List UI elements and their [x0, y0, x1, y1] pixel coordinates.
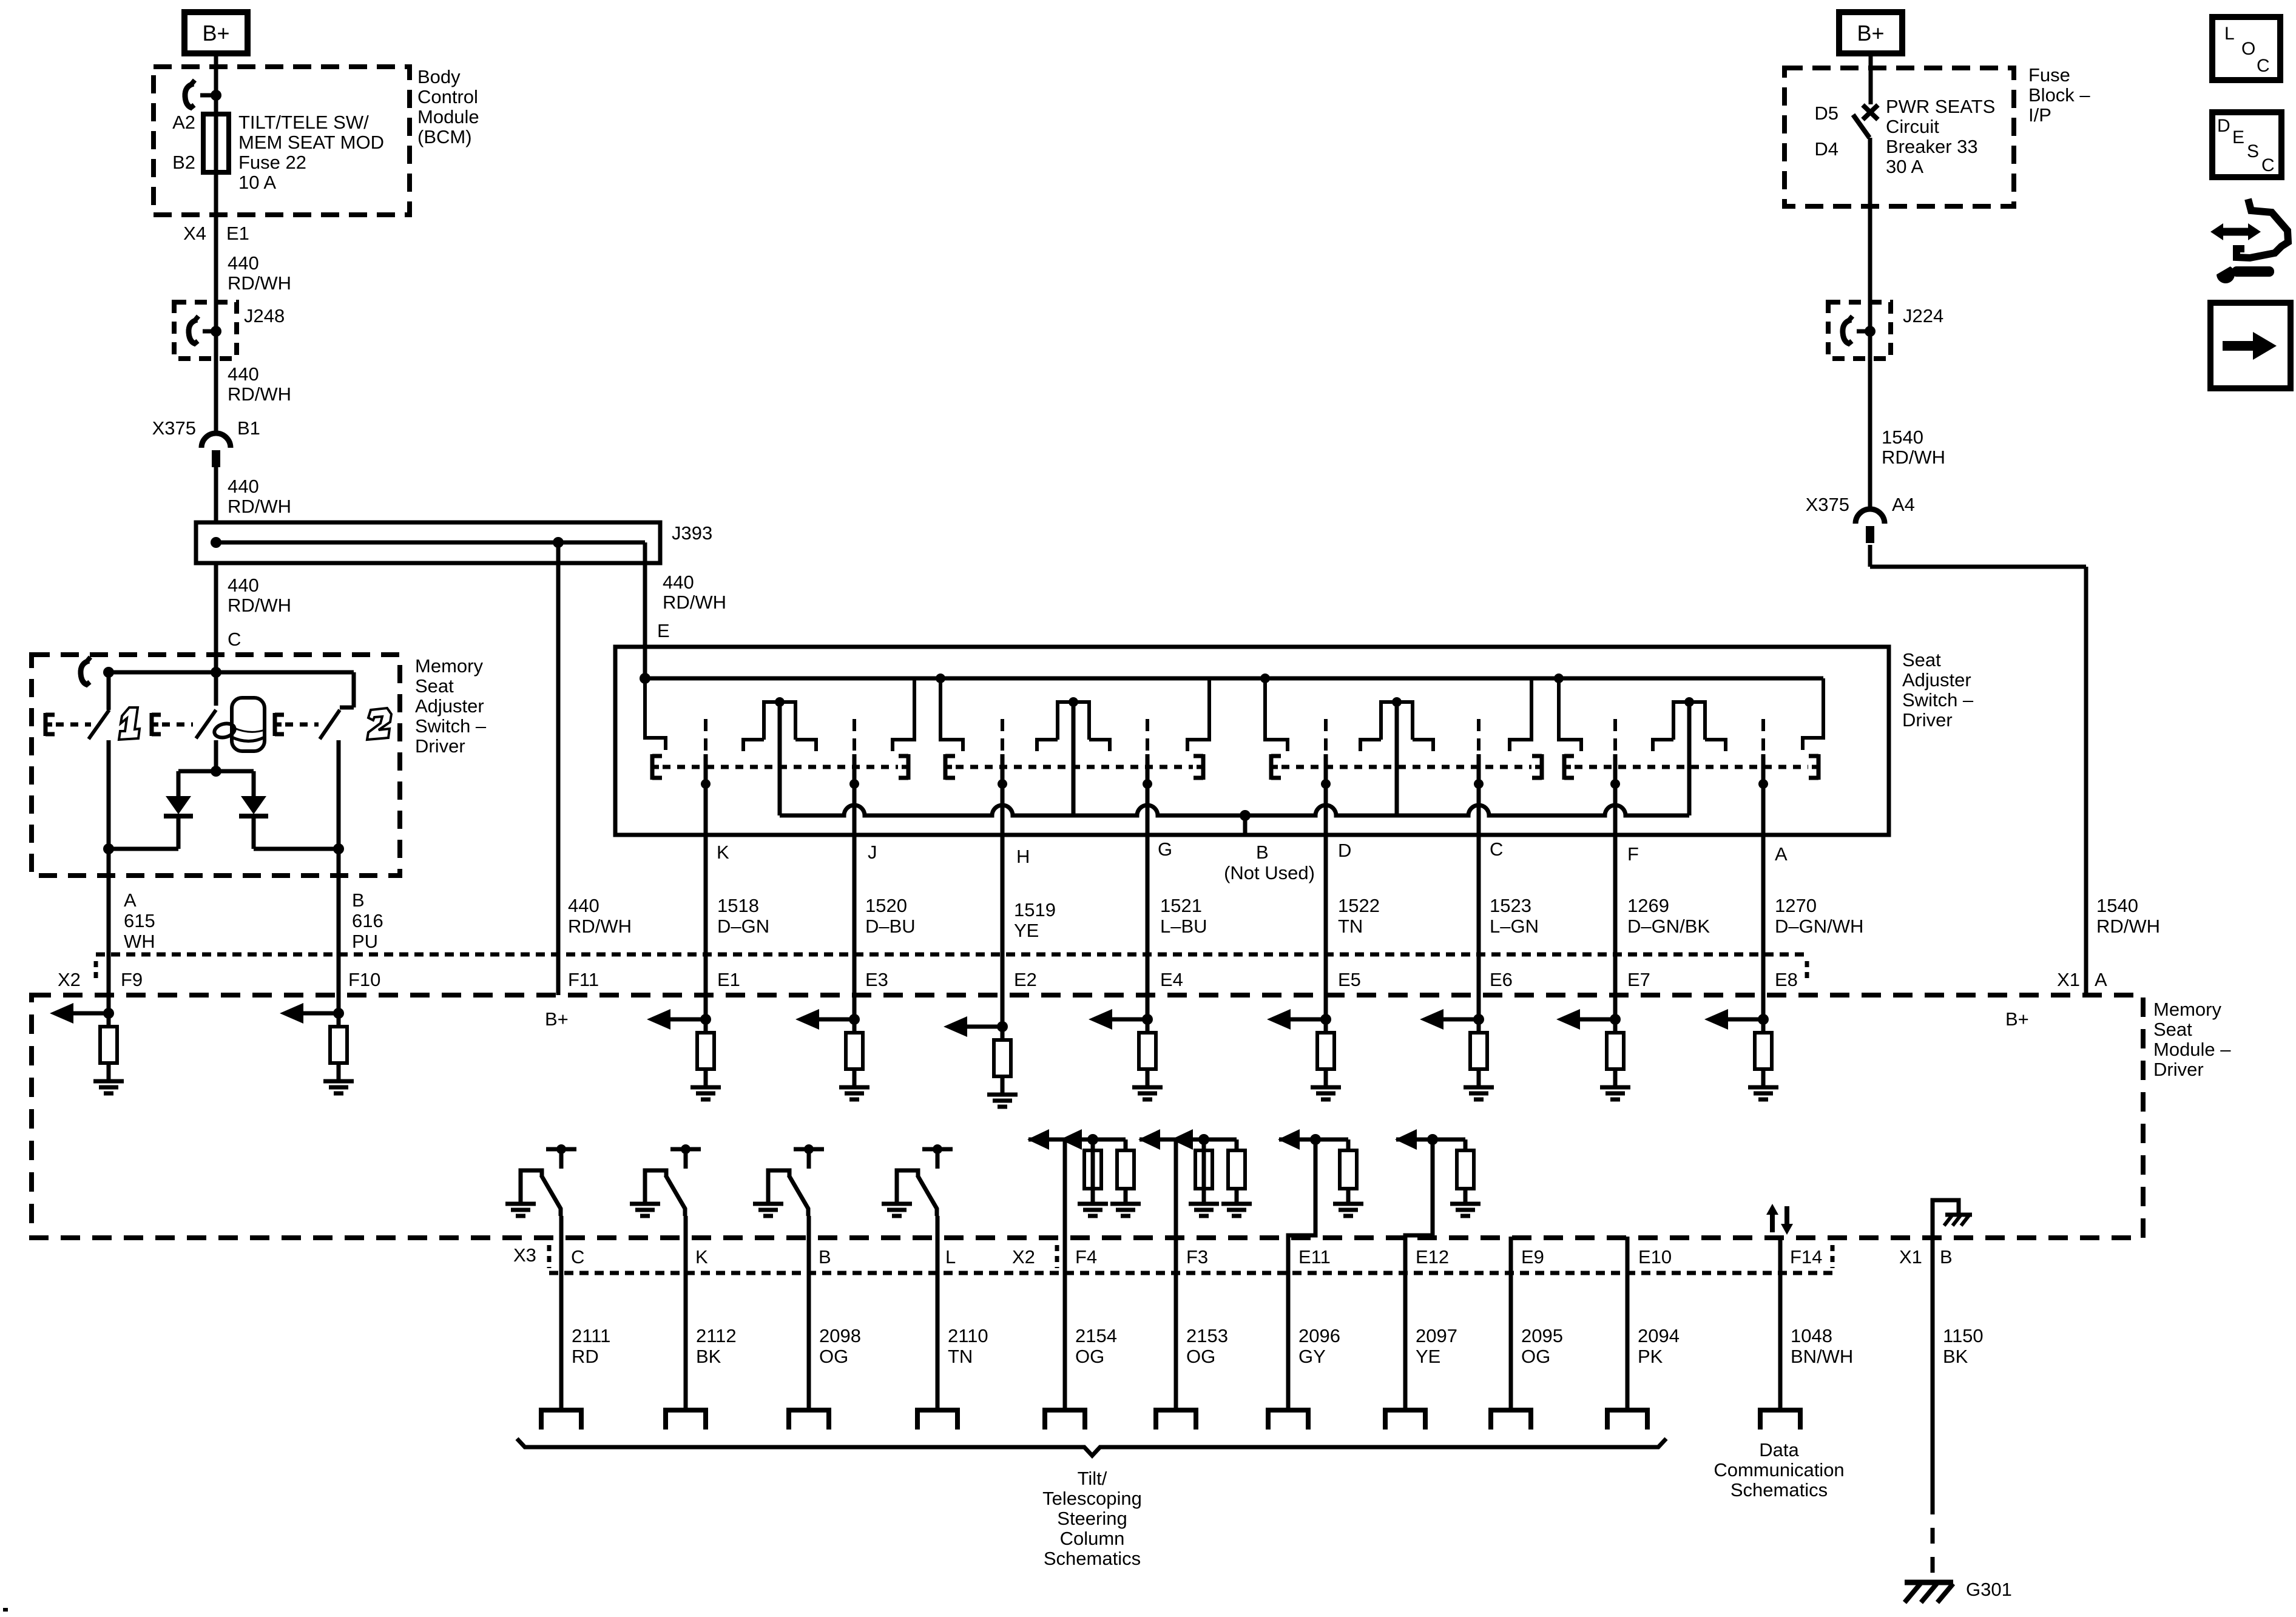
circuit breaker PWR SEATS 33 30A — [1863, 105, 1878, 120]
svg-text:1540: 1540 — [2096, 895, 2138, 916]
switch curl MSAS — [81, 661, 89, 685]
wire 1150 BK — [1931, 1238, 1935, 1499]
svg-text:C: C — [1490, 839, 1503, 860]
wire 1540 RD/WH horizontal — [1870, 565, 2086, 569]
svg-text:F: F — [1627, 843, 1639, 865]
svg-text:1519: 1519 — [1014, 899, 1056, 920]
icon arrow right — [2210, 303, 2291, 388]
svg-text:Schematics: Schematics — [1730, 1479, 1828, 1501]
icon wrench/arrow — [2237, 199, 2288, 258]
input network F9 — [72, 1011, 109, 1016]
wire 440 RD/WH main vertical (BCM to X375) — [214, 56, 218, 431]
svg-text:1521: 1521 — [1160, 895, 1202, 916]
internal chassis ground (X1 B) — [1933, 1200, 1959, 1238]
svg-text:1522: 1522 — [1338, 895, 1380, 916]
svg-text:A: A — [1775, 843, 1788, 865]
wire 1150 BK dashed to G301 — [1931, 1499, 1935, 1579]
input network E5 — [1289, 1018, 1326, 1022]
svg-text:C: C — [228, 629, 241, 650]
svg-text:D–GN: D–GN — [717, 916, 769, 937]
J393 junction right — [553, 537, 564, 548]
svg-text:RD/WH: RD/WH — [2096, 916, 2160, 937]
svg-text:Driver: Driver — [1902, 709, 1953, 731]
internal feed bus — [109, 670, 354, 675]
svg-text:1520: 1520 — [865, 895, 907, 916]
svg-text:1150: 1150 — [1943, 1325, 1984, 1346]
Fuse Block - I/P box — [1784, 68, 2014, 206]
svg-text:E10: E10 — [1638, 1246, 1672, 1268]
memory switch 1 — [107, 672, 111, 710]
svg-text:30 A: 30 A — [1886, 156, 1923, 177]
car seat icon — [232, 698, 265, 751]
wire 1522 TN — [1324, 835, 1328, 1028]
svg-text:2098: 2098 — [819, 1325, 861, 1346]
svg-text:440: 440 — [228, 363, 259, 385]
wire 1270 D-GN/WH — [1761, 835, 1766, 1028]
output switch L — [897, 1149, 953, 1216]
svg-text:L–BU: L–BU — [1160, 916, 1207, 937]
wiper J — [853, 719, 856, 754]
svg-text:2094: 2094 — [1638, 1325, 1680, 1346]
tick F14 — [1831, 1245, 1835, 1268]
contact pair K-J — [743, 702, 816, 815]
svg-text:Adjuster: Adjuster — [415, 695, 484, 717]
svg-text:K: K — [717, 842, 729, 863]
diode 2 anode wire — [252, 771, 256, 796]
input network E6 — [1442, 1018, 1479, 1022]
svg-text:A: A — [124, 890, 137, 911]
svg-text:E5: E5 — [1338, 969, 1361, 990]
junction B not used — [1240, 810, 1251, 821]
svg-text:B+: B+ — [545, 1008, 569, 1030]
svg-text:OG: OG — [1186, 1346, 1215, 1367]
svg-text:1540: 1540 — [1882, 427, 1923, 448]
svg-text:1270: 1270 — [1775, 895, 1817, 916]
svg-text:BN/WH: BN/WH — [1791, 1346, 1853, 1367]
wire 1269 D-GN/BK — [1613, 835, 1618, 1028]
icon LOC — [2212, 17, 2280, 80]
input network F10 — [302, 1011, 339, 1016]
svg-text:RD/WH: RD/WH — [568, 916, 632, 937]
svg-text:D4: D4 — [1814, 138, 1838, 160]
svg-text:J: J — [868, 842, 877, 863]
wire 1518 D-GN — [704, 835, 708, 1028]
svg-text:1523: 1523 — [1490, 895, 1531, 916]
svg-text:TILT/TELE SW/: TILT/TELE SW/ — [238, 112, 369, 133]
svg-text:D–GN/WH: D–GN/WH — [1775, 916, 1863, 937]
tick right — [1805, 961, 1809, 983]
mech bracket centre — [152, 713, 161, 736]
svg-text:2095: 2095 — [1521, 1325, 1563, 1346]
right end of bus / half contact — [1803, 678, 1823, 750]
svg-text:D: D — [2217, 116, 2230, 136]
wire 440 RD/WH branch to F11 — [556, 542, 561, 995]
brace Tilt/Telescoping Steering Column Schematics — [517, 1439, 1666, 1456]
svg-text:Block –: Block – — [2028, 84, 2090, 106]
svg-text:J248: J248 — [244, 305, 285, 326]
svg-text:D–BU: D–BU — [865, 916, 916, 937]
svg-text:X3: X3 — [513, 1244, 536, 1266]
svg-text:Tilt/: Tilt/ — [1078, 1468, 1107, 1489]
set switch (centre) — [214, 672, 218, 706]
bus dot E entry — [640, 673, 650, 684]
mechanical link dashed lines — [652, 754, 662, 780]
svg-text:RD/WH: RD/WH — [663, 592, 726, 613]
diode 1 — [166, 796, 191, 814]
svg-text:E4: E4 — [1160, 969, 1183, 990]
svg-text:2111: 2111 — [572, 1325, 610, 1346]
svg-text:C: C — [2261, 155, 2275, 175]
output switch K — [645, 1149, 701, 1216]
svg-text:D–GN/BK: D–GN/BK — [1627, 916, 1710, 937]
svg-text:(Not Used): (Not Used) — [1224, 862, 1315, 883]
memory switch 2 — [352, 672, 356, 707]
svg-text:Switch –: Switch – — [415, 715, 487, 737]
output switch B — [768, 1149, 824, 1216]
terminal — [1268, 1410, 1308, 1430]
junction C feed — [211, 667, 221, 678]
wire 1540 RD/WH right — [1868, 138, 1872, 510]
svg-text:F4: F4 — [1075, 1246, 1097, 1268]
svg-text:X375: X375 — [1806, 494, 1849, 515]
connector row X3/X2 (bottom) dashed line — [549, 1271, 1833, 1275]
wire 440 RD/WH (X375 to J393) — [214, 465, 218, 522]
wire from B+ to breaker — [1869, 56, 1873, 104]
numeral 2 — [367, 708, 391, 740]
svg-text:J393: J393 — [672, 522, 712, 544]
svg-text:RD/WH: RD/WH — [228, 272, 291, 294]
svg-text:10 A: 10 A — [238, 172, 276, 193]
svg-text:X1: X1 — [2057, 969, 2080, 990]
contact pair F-A — [1653, 702, 1726, 815]
svg-text:S: S — [2247, 141, 2259, 161]
junction in BCM — [211, 90, 221, 101]
svg-text:L–GN: L–GN — [1490, 916, 1539, 937]
svg-text:GY: GY — [1298, 1346, 1326, 1367]
inline connector X375 B1 — [201, 433, 231, 448]
wiper G — [1146, 719, 1149, 754]
svg-text:E8: E8 — [1775, 969, 1798, 990]
svg-text:615: 615 — [124, 910, 155, 931]
terminal — [1385, 1410, 1425, 1430]
svg-text:Schematics: Schematics — [1044, 1548, 1141, 1569]
svg-text:Column: Column — [1060, 1528, 1125, 1549]
svg-text:F9: F9 — [121, 969, 143, 990]
svg-text:F10: F10 — [348, 969, 380, 990]
wire 1523 L-GN — [1477, 835, 1481, 1028]
svg-text:440: 440 — [663, 572, 694, 593]
svg-text:2112: 2112 — [696, 1325, 737, 1346]
splice J248 — [174, 302, 237, 359]
terminal — [1156, 1410, 1196, 1430]
svg-text:Circuit: Circuit — [1886, 116, 1939, 137]
Memory Seat Adjuster Switch - Driver box — [32, 655, 400, 876]
wire 440 RD/WH branch E to seat adjuster switch — [643, 542, 647, 678]
svg-text:PK: PK — [1638, 1346, 1663, 1367]
wire 616 PU (B to F10) — [337, 849, 341, 1028]
svg-text:BK: BK — [1943, 1346, 1968, 1367]
svg-text:1269: 1269 — [1627, 895, 1669, 916]
input network E8 — [1727, 1018, 1763, 1022]
svg-text:C: C — [2257, 56, 2270, 76]
svg-text:RD: RD — [572, 1346, 599, 1367]
svg-text:A2: A2 — [172, 112, 195, 133]
svg-text:TN: TN — [948, 1346, 973, 1367]
svg-text:B: B — [1256, 842, 1269, 863]
wire E10 down — [1626, 1237, 1630, 1410]
terminal — [789, 1410, 829, 1430]
svg-text:E9: E9 — [1521, 1246, 1544, 1268]
svg-text:E1: E1 — [717, 969, 740, 990]
svg-text:2097: 2097 — [1416, 1325, 1457, 1346]
svg-text:(BCM): (BCM) — [417, 126, 472, 147]
svg-text:Breaker 33: Breaker 33 — [1886, 136, 1978, 157]
svg-text:E2: E2 — [1014, 969, 1037, 990]
fuse TILT/TELE SW/MEM SEAT MOD Fuse 22 10A — [203, 114, 229, 172]
svg-text:Control: Control — [417, 86, 478, 107]
wiper K — [704, 719, 707, 754]
left half contact — [645, 678, 666, 750]
svg-text:O: O — [2241, 39, 2255, 59]
connector row X2 (top) dashed line — [96, 953, 1807, 957]
svg-text:B1: B1 — [237, 417, 260, 439]
junction left — [103, 667, 114, 678]
svg-text:E1: E1 — [226, 223, 249, 244]
svg-text:440: 440 — [228, 476, 259, 497]
svg-text:OG: OG — [819, 1346, 848, 1367]
svg-text:E6: E6 — [1490, 969, 1513, 990]
tick X2 left — [94, 961, 98, 983]
svg-text:B2: B2 — [172, 152, 195, 173]
svg-text:440: 440 — [228, 575, 259, 596]
input network E7 — [1579, 1018, 1615, 1022]
wire 440 RD/WH to C — [214, 563, 218, 672]
svg-text:G: G — [1158, 839, 1172, 860]
J393 junction left — [211, 537, 221, 548]
svg-text:X1: X1 — [1899, 1246, 1922, 1268]
terminal — [917, 1410, 957, 1430]
svg-text:Adjuster: Adjuster — [1902, 669, 1971, 690]
terminal — [1607, 1410, 1647, 1430]
svg-text:RD/WH: RD/WH — [228, 496, 291, 517]
svg-text:Seat: Seat — [415, 675, 454, 697]
wiper A — [1761, 719, 1765, 754]
svg-text:Seat: Seat — [1902, 649, 1941, 670]
svg-text:E3: E3 — [865, 969, 888, 990]
wiper F — [1613, 719, 1617, 754]
switch curl in BCM — [185, 84, 194, 108]
svg-text:Steering: Steering — [1057, 1508, 1127, 1529]
svg-text:B+: B+ — [202, 21, 229, 46]
output switch C — [521, 1149, 576, 1216]
Seat Adjuster Switch - Driver box — [615, 647, 1889, 835]
svg-text:L: L — [2224, 24, 2235, 44]
svg-text:2096: 2096 — [1298, 1325, 1340, 1346]
svg-text:D: D — [1338, 840, 1351, 861]
input network E4 — [1111, 1018, 1147, 1022]
B+ contact pair C-F — [1510, 680, 1581, 751]
svg-text:Fuse 22: Fuse 22 — [238, 152, 306, 173]
svg-text:F14: F14 — [1790, 1246, 1822, 1268]
svg-text:TN: TN — [1338, 916, 1363, 937]
svg-text:Data: Data — [1759, 1439, 1799, 1460]
svg-text:X2: X2 — [1012, 1246, 1035, 1268]
svg-text:440: 440 — [228, 252, 259, 274]
output network F3 — [1140, 1138, 1237, 1142]
wire to A out — [109, 847, 178, 851]
svg-text:K: K — [695, 1246, 708, 1268]
svg-text:C: C — [571, 1246, 584, 1268]
svg-text:E11: E11 — [1298, 1246, 1331, 1268]
svg-text:Fuse: Fuse — [2028, 64, 2070, 86]
terminal — [666, 1410, 706, 1430]
terminal — [541, 1410, 581, 1430]
wire E9 down — [1509, 1237, 1513, 1410]
svg-text:Seat: Seat — [2153, 1019, 2192, 1040]
input network E1 — [669, 1018, 706, 1022]
wiper C — [1477, 719, 1481, 754]
wire B (not used) — [1243, 815, 1248, 835]
numeral 1 — [119, 707, 140, 740]
svg-text:YE: YE — [1416, 1346, 1440, 1367]
output network E11 — [1279, 1138, 1348, 1142]
wire 1520 D-BU — [853, 835, 857, 1028]
svg-text:Switch –: Switch – — [1902, 689, 1974, 711]
svg-text:Body: Body — [417, 66, 461, 87]
wire 1519 YE — [1001, 835, 1005, 1028]
svg-text:MEM SEAT MOD: MEM SEAT MOD — [238, 132, 384, 153]
svg-text:D5: D5 — [1814, 103, 1838, 124]
svg-text:X4: X4 — [183, 223, 206, 244]
svg-text:PU: PU — [352, 931, 378, 952]
svg-text:Module –: Module – — [2153, 1039, 2231, 1060]
svg-text:B+: B+ — [2005, 1008, 2029, 1030]
svg-text:BK: BK — [696, 1346, 721, 1367]
tick X2 bottom — [1055, 1245, 1059, 1268]
svg-text:Driver: Driver — [415, 735, 465, 757]
terminal — [1491, 1410, 1531, 1430]
J393 internal bus wire — [216, 541, 645, 545]
inline connector X375 A4 — [1855, 509, 1885, 524]
svg-text:E12: E12 — [1416, 1246, 1449, 1268]
svg-text:OG: OG — [1521, 1346, 1550, 1367]
terminal — [1045, 1410, 1085, 1430]
svg-text:J224: J224 — [1903, 305, 1943, 326]
BCM box (Body Control Module) — [154, 67, 410, 215]
svg-text:1048: 1048 — [1791, 1325, 1832, 1346]
wiper D — [1324, 719, 1328, 754]
svg-text:Telescoping: Telescoping — [1042, 1488, 1142, 1509]
wire to B out — [254, 847, 339, 851]
B+ contact pair G-D — [1187, 680, 1288, 751]
wire F4 down — [1063, 1139, 1067, 1410]
top B+ bus — [645, 677, 1823, 681]
ground G301 — [1905, 1580, 1953, 1585]
svg-text:B+: B+ — [1857, 21, 1884, 46]
svg-text:Memory: Memory — [2153, 999, 2221, 1020]
svg-text:2154: 2154 — [1075, 1325, 1117, 1346]
svg-text:E: E — [2232, 127, 2244, 147]
terminal — [1760, 1410, 1800, 1430]
svg-text:OG: OG — [1075, 1346, 1104, 1367]
wire 1521 L-BU — [1146, 835, 1150, 1028]
svg-text:X2: X2 — [58, 969, 81, 990]
wire F14 down — [1778, 1237, 1783, 1410]
svg-text:B: B — [819, 1246, 831, 1268]
svg-text:I/P: I/P — [2028, 104, 2051, 126]
wire F3 down — [1174, 1139, 1178, 1410]
svg-text:Memory: Memory — [415, 655, 483, 677]
svg-text:Driver: Driver — [2153, 1059, 2204, 1080]
power feed B+ (right) — [1839, 12, 1902, 53]
input network E2 — [966, 1025, 1002, 1029]
contact pair H-G — [1037, 702, 1110, 815]
Memory Seat Module - Driver box — [32, 995, 2143, 1238]
svg-text:616: 616 — [352, 910, 383, 931]
svg-text:F3: F3 — [1186, 1246, 1208, 1268]
splice pack J393 — [196, 522, 660, 563]
svg-text:L: L — [945, 1246, 956, 1268]
svg-text:Module: Module — [417, 106, 479, 127]
svg-text:F11: F11 — [568, 969, 599, 990]
contact pair D-C — [1360, 702, 1433, 815]
svg-text:2110: 2110 — [948, 1325, 988, 1346]
svg-text:B: B — [352, 890, 365, 911]
power feed B+ (left) — [184, 12, 248, 53]
wire 615 WH (A to F9) — [107, 849, 111, 1028]
curl tick wire — [200, 93, 214, 98]
svg-text:E7: E7 — [1627, 969, 1650, 990]
svg-text:PWR SEATS: PWR SEATS — [1886, 96, 1995, 117]
input network E3 — [818, 1018, 854, 1022]
data link arrows F14 — [1770, 1212, 1775, 1232]
svg-text:A4: A4 — [1892, 494, 1915, 515]
lower bus with hops — [780, 805, 1689, 815]
diode 2 — [241, 796, 266, 814]
output network F4 — [1028, 1138, 1126, 1142]
wire 1540 RD/WH to X1 A — [2084, 567, 2088, 995]
svg-text:2153: 2153 — [1186, 1325, 1228, 1346]
diode branch — [178, 769, 254, 774]
icon DESC — [2212, 112, 2281, 177]
svg-text:YE: YE — [1014, 920, 1039, 941]
output network E12 — [1396, 1138, 1465, 1142]
svg-text:RD/WH: RD/WH — [1882, 447, 1945, 468]
svg-text:Communication: Communication — [1714, 1459, 1844, 1480]
wiper H — [1001, 719, 1004, 754]
svg-text:E: E — [657, 620, 670, 641]
B+ contact pair J-H — [893, 680, 963, 751]
svg-text:A: A — [2095, 969, 2107, 990]
svg-text:B: B — [1940, 1246, 1953, 1268]
svg-text:440: 440 — [568, 895, 599, 916]
tick X3 — [547, 1245, 552, 1268]
svg-text:G301: G301 — [1966, 1579, 2012, 1600]
diode 1 anode wire — [177, 771, 181, 796]
svg-text:RD/WH: RD/WH — [228, 383, 291, 405]
svg-text:X375: X375 — [152, 417, 196, 439]
splice J224 — [1828, 302, 1891, 359]
svg-text:H: H — [1016, 846, 1030, 867]
svg-text:RD/WH: RD/WH — [228, 595, 291, 616]
svg-text:WH: WH — [124, 931, 155, 952]
svg-text:1518: 1518 — [717, 895, 759, 916]
